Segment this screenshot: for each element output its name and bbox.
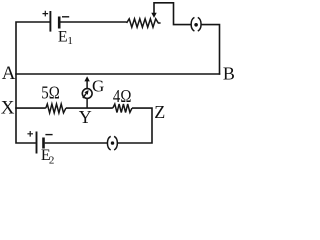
battery E2 negative plate	[42, 138, 45, 149]
wire: key K1 to corner B	[201, 25, 220, 75]
rheostat RH zigzag	[127, 19, 161, 27]
battery E2 positive plate	[36, 132, 38, 154]
minus sign of E2	[45, 134, 52, 136]
rheostat wiper arrowhead	[151, 13, 156, 18]
resistor 5 ohm zigzag	[46, 104, 66, 113]
wire: E1 to rheostat	[60, 21, 126, 23]
wire: top-left loop (top wire, left vertical, bottom wire start)	[16, 22, 50, 143]
svg-text:B: B	[223, 63, 235, 83]
svg-text:5Ω: 5Ω	[41, 83, 60, 103]
wire: 5-ohm to 4-ohm through node Y	[66, 107, 113, 109]
svg-text:X: X	[1, 98, 15, 119]
plus sign of E2	[27, 131, 33, 137]
svg-text:1: 1	[67, 35, 73, 47]
battery E1 negative plate	[58, 17, 61, 29]
key K2 plug symbol arcs	[107, 136, 117, 150]
svg-text:A: A	[2, 63, 16, 84]
svg-text:Y: Y	[79, 107, 92, 127]
minus sign of E1	[62, 16, 69, 18]
battery E1 positive plate	[49, 11, 51, 32]
svg-text:E: E	[58, 29, 68, 46]
svg-text:2: 2	[49, 155, 55, 167]
galvanometer jockey arrowhead	[84, 76, 89, 81]
wire: bottom key K2 to battery E2	[45, 142, 108, 144]
galvanometer jockey arrow shaft	[86, 81, 88, 89]
key K2 contact dot	[111, 141, 114, 144]
resistor 4 ohm zigzag	[113, 104, 132, 113]
svg-text:4Ω: 4Ω	[113, 86, 131, 106]
galvanometer needle arrow	[83, 94, 86, 99]
key K1 plug symbol arcs	[191, 17, 201, 31]
wire: 4-ohm to Z corner and down to bottom wire	[118, 108, 152, 143]
svg-text:G: G	[92, 76, 104, 95]
wire AB potentiometer line	[15, 73, 220, 75]
plus sign of E1	[43, 11, 49, 17]
galvanometer G circle	[82, 89, 92, 99]
galvanometer G stem to node Y	[86, 98, 88, 108]
rheostat wiper wire and wire to key K1	[154, 3, 191, 25]
key K1 contact dot	[194, 23, 198, 27]
wire: X to 5-ohm resistor	[15, 107, 46, 109]
svg-text:Z: Z	[154, 102, 165, 122]
